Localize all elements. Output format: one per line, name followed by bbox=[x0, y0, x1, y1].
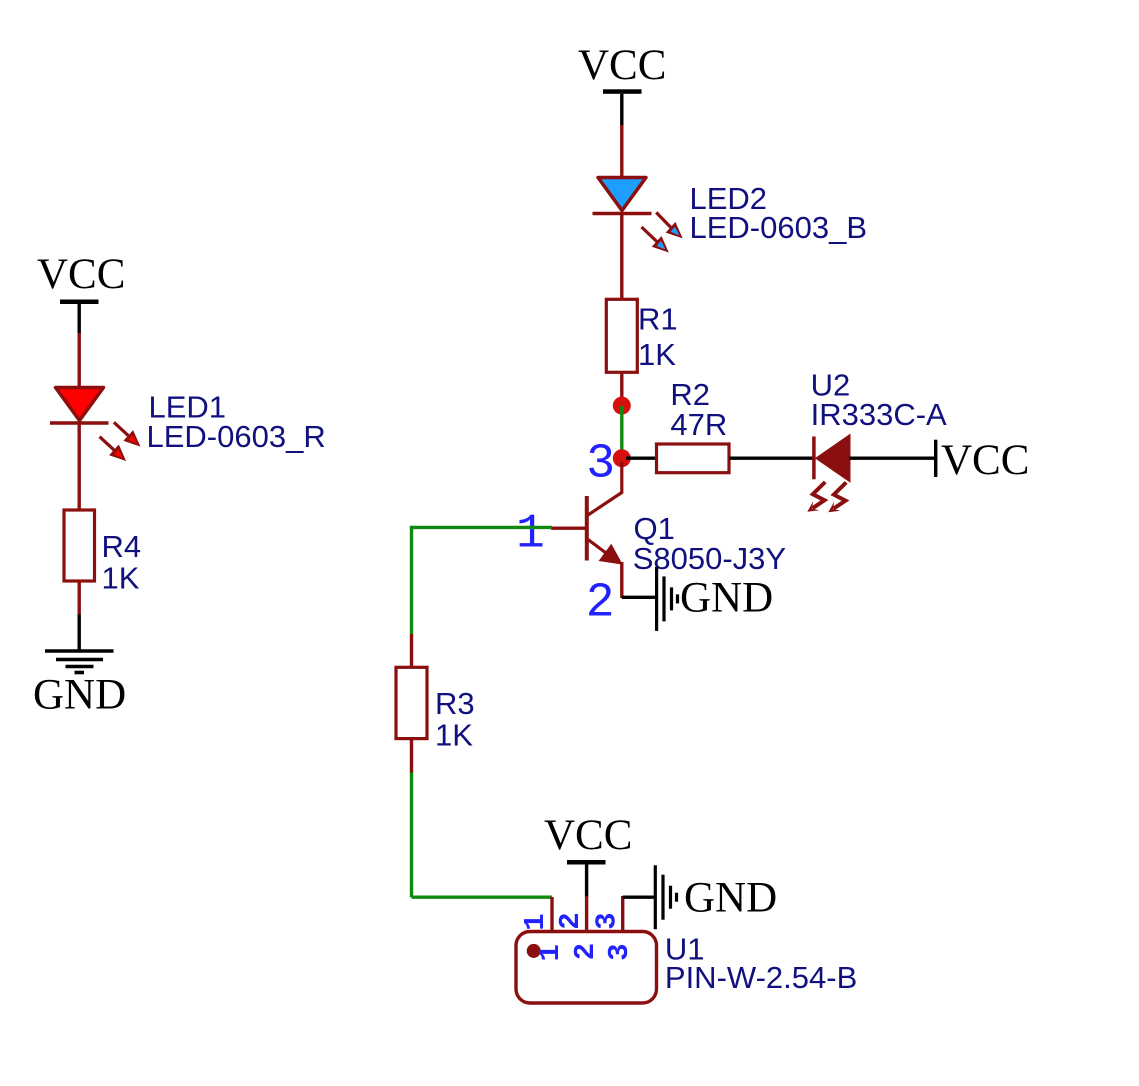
ground symbol (bottom, rotated) bbox=[655, 865, 777, 929]
wire green to R3 bbox=[410, 634, 413, 668]
LED2 light arrow a bbox=[656, 212, 683, 238]
resistor R2 bbox=[657, 444, 730, 473]
junction dot node 3 bbox=[613, 449, 631, 467]
resistor R3 bbox=[396, 667, 427, 738]
IR LED U2 bbox=[807, 435, 849, 512]
svg-text:LED-0603_B: LED-0603_B bbox=[690, 210, 868, 245]
Q1 base pin stub bbox=[551, 527, 585, 530]
LED2 light arrow b bbox=[642, 227, 669, 253]
VCC power symbol (top center) bbox=[578, 42, 666, 126]
svg-text:R3: R3 bbox=[435, 686, 475, 721]
svg-text:VCC: VCC bbox=[941, 437, 1029, 484]
svg-text:LED-0603_R: LED-0603_R bbox=[147, 419, 326, 454]
wire VCC to LED1 bbox=[77, 333, 80, 388]
wire U2 to VCC bbox=[850, 457, 936, 460]
LED1 light arrow a bbox=[114, 422, 140, 446]
svg-text:3: 3 bbox=[603, 943, 636, 960]
VCC power symbol (right, rotated) bbox=[934, 437, 1029, 484]
svg-text:R1: R1 bbox=[638, 302, 678, 337]
wire green corner to U1 pin1 bbox=[412, 896, 553, 899]
wire R4 to GND bbox=[77, 580, 80, 615]
wire R3 down bbox=[410, 738, 413, 773]
base wire green horizontal bbox=[412, 526, 553, 529]
svg-text:GND: GND bbox=[33, 671, 126, 718]
wire R1 to junction bbox=[620, 371, 623, 400]
svg-text:3: 3 bbox=[591, 912, 624, 929]
svg-text:IR333C-A: IR333C-A bbox=[811, 397, 947, 432]
svg-text:1K: 1K bbox=[435, 717, 473, 752]
wire green down to corner bbox=[410, 773, 413, 898]
VCC power symbol (left) bbox=[37, 251, 125, 334]
U2 IR zigzag arrow a bbox=[813, 482, 826, 508]
svg-text:PIN-W-2.54-B: PIN-W-2.54-B bbox=[665, 960, 857, 995]
U1 pin 2 stub bbox=[585, 896, 588, 933]
U1 pin 3 stub bbox=[621, 896, 624, 933]
U2 IR zigzag arrow b bbox=[834, 482, 847, 508]
ground symbol (right of Q1, rotated) bbox=[657, 567, 774, 631]
LED D1 (red) bbox=[50, 388, 140, 462]
svg-text:VCC: VCC bbox=[578, 42, 666, 89]
wire junction to node 3 (green) bbox=[620, 406, 623, 458]
U1 pin 1 stub bbox=[550, 897, 553, 933]
wire VCC to LED2 bbox=[620, 125, 623, 178]
wire R2 to U2 bbox=[729, 457, 814, 460]
LED1 light arrow b bbox=[100, 437, 127, 461]
resistor R4 bbox=[64, 510, 95, 581]
svg-text:2: 2 bbox=[569, 943, 602, 960]
svg-text:1K: 1K bbox=[638, 337, 676, 372]
wire LED1 to R4 bbox=[77, 423, 80, 511]
resistor R1 bbox=[606, 299, 637, 372]
VCC power symbol (bottom) bbox=[544, 812, 632, 897]
wire node3 to R2 bbox=[626, 457, 658, 460]
ground symbol (left) bbox=[33, 615, 126, 719]
LED D2 (blue) bbox=[593, 178, 683, 253]
svg-text:2: 2 bbox=[554, 912, 587, 929]
svg-text:R4: R4 bbox=[102, 529, 142, 564]
svg-text:2: 2 bbox=[586, 577, 615, 631]
svg-text:GND: GND bbox=[680, 574, 773, 621]
transistor Q1 bbox=[551, 462, 623, 598]
svg-text:1: 1 bbox=[516, 507, 545, 561]
base wire green vertical bbox=[410, 526, 413, 635]
svg-text:47R: 47R bbox=[670, 407, 727, 442]
wire LED2 to R1 bbox=[620, 214, 623, 301]
svg-text:1: 1 bbox=[519, 913, 552, 930]
connector U1 body bbox=[516, 932, 657, 1004]
U1 pin1 marker dot bbox=[527, 944, 541, 958]
Q1 emitter with arrow bbox=[588, 540, 606, 554]
svg-text:1: 1 bbox=[534, 944, 567, 961]
Q1 base bar bbox=[585, 496, 589, 561]
Q1 collector bbox=[588, 462, 622, 515]
svg-text:3: 3 bbox=[586, 438, 615, 492]
junction dot upper bbox=[613, 397, 631, 415]
svg-text:VCC: VCC bbox=[544, 812, 632, 859]
svg-text:1K: 1K bbox=[102, 561, 140, 596]
wire emitter to GND bbox=[622, 596, 656, 599]
svg-text:VCC: VCC bbox=[37, 251, 125, 298]
wire pin3 to GND bbox=[623, 896, 656, 899]
svg-text:GND: GND bbox=[684, 874, 777, 921]
